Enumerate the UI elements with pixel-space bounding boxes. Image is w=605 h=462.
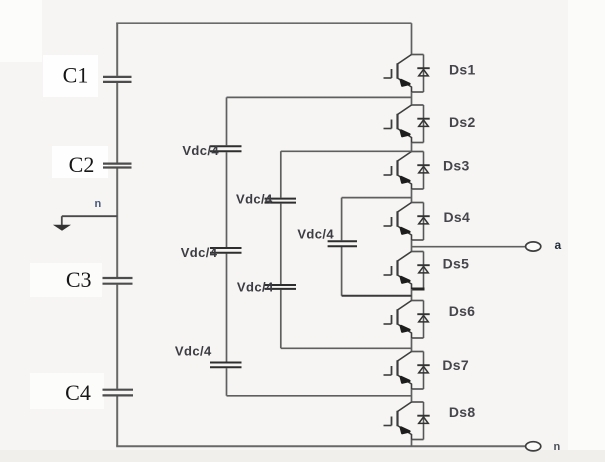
capacitor C3 — [103, 278, 133, 284]
wire: flying bank 2 top tap — [281, 150, 412, 152]
capacitor Vdc/4 (bank2 bottom) — [265, 285, 297, 289]
transistor Ds8 (IGBT + antiparallel diode) — [384, 402, 430, 440]
node n midpoint wire — [62, 215, 117, 217]
wire top rail to Ds1 — [411, 23, 413, 54]
capacitor Vdc/4 (bank1 bottom) — [210, 363, 242, 368]
wire: flying bank 2 bottom tap — [281, 347, 412, 349]
transistor Ds5 (IGBT + antiparallel diode) — [384, 252, 430, 290]
svg-text:Vdc/4: Vdc/4 — [182, 143, 219, 158]
right margin light strip — [568, 0, 605, 450]
svg-text:C4: C4 — [65, 380, 91, 405]
top-left white patch — [0, 0, 42, 62]
node n arrowhead — [53, 225, 71, 231]
svg-text:Vdc/4: Vdc/4 — [297, 227, 334, 242]
svg-text:n: n — [554, 441, 561, 453]
svg-text:C1: C1 — [63, 63, 89, 88]
bottom scan band — [0, 450, 605, 462]
wire Ds5-Ds6 — [411, 289, 413, 301]
svg-text:Ds8: Ds8 — [449, 404, 476, 420]
wire: flying bank 1 top tap — [227, 96, 412, 98]
wire: flying bank 1 vertical — [226, 97, 228, 395]
terminal n — [526, 442, 541, 451]
wire: flying bank 1 bottom tap — [227, 395, 412, 397]
white label box C4 — [30, 373, 104, 409]
svg-text:Ds2: Ds2 — [449, 114, 476, 130]
bottom rail wire — [116, 445, 526, 447]
wire Ds2-Ds3 — [411, 143, 413, 152]
transistor Ds4 (IGBT + antiparallel diode) — [384, 203, 430, 241]
capacitor C2 — [103, 164, 132, 168]
node n arrow stub — [61, 216, 63, 225]
thick emitter junction of Ds5 — [411, 288, 425, 291]
left DC bus wire — [116, 23, 118, 446]
wire Ds8 to bottom rail — [411, 440, 413, 447]
transistor Ds3 (IGBT + antiparallel diode) — [384, 152, 430, 190]
svg-text:Vdc/4: Vdc/4 — [236, 192, 273, 207]
wire: output phase a — [412, 246, 526, 248]
capacitor Vdc/4 (bank1 middle) — [210, 248, 242, 253]
svg-text:Ds4: Ds4 — [444, 209, 471, 225]
svg-text:Ds5: Ds5 — [443, 256, 470, 272]
transistor Ds2 (IGBT + antiparallel diode) — [384, 105, 430, 143]
white label box C3 — [30, 263, 102, 297]
capacitor Vdc/4 (inner) — [328, 241, 357, 246]
wire Ds7-Ds8 — [411, 389, 413, 402]
svg-text:Ds3: Ds3 — [443, 157, 470, 173]
svg-text:a: a — [555, 238, 562, 252]
svg-text:Vdc/4: Vdc/4 — [181, 245, 218, 260]
svg-text:n: n — [95, 198, 102, 210]
white label box C1 — [43, 55, 98, 97]
svg-text:C2: C2 — [69, 152, 95, 177]
white label box C2 — [52, 146, 108, 178]
transistor Ds1 (IGBT + antiparallel diode) — [384, 55, 430, 93]
wire: flying cap 3 bottom tap — [342, 295, 412, 297]
wire: flying bank 2 vertical — [280, 151, 282, 348]
capacitor C4 — [103, 390, 134, 396]
capacitor Vdc/4 (bank2 top) — [265, 199, 297, 203]
svg-text:Vdc/4: Vdc/4 — [175, 344, 212, 359]
wire Ds6-Ds7 — [411, 338, 413, 352]
top rail wire — [116, 22, 411, 24]
wire Ds1-Ds2 — [411, 92, 413, 105]
terminal a — [526, 242, 541, 251]
svg-text:C3: C3 — [66, 267, 92, 292]
wire Ds3-Ds4 — [411, 189, 413, 203]
transistor Ds6 (IGBT + antiparallel diode) — [384, 301, 430, 339]
wire Ds4-Ds5 — [411, 240, 413, 252]
transistor Ds7 (IGBT + antiparallel diode) — [384, 352, 430, 390]
wire: flying cap 3 vertical — [341, 198, 343, 296]
svg-text:Ds7: Ds7 — [442, 357, 469, 373]
capacitor C1 — [103, 77, 132, 82]
svg-text:Ds6: Ds6 — [449, 303, 476, 319]
svg-text:Vdc/4: Vdc/4 — [237, 280, 274, 295]
svg-text:Ds1: Ds1 — [449, 62, 476, 78]
capacitor Vdc/4 (bank1 top) — [210, 146, 242, 151]
wire: flying cap 3 top tap — [342, 197, 412, 199]
